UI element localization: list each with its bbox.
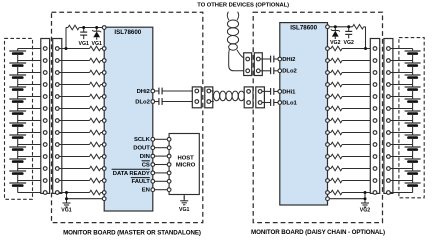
svg-text:DOUT: DOUT bbox=[133, 146, 150, 152]
svg-text:VG1: VG1 bbox=[92, 41, 102, 47]
svg-text:DHi2: DHi2 bbox=[282, 57, 296, 63]
svg-text:MICRO: MICRO bbox=[176, 163, 196, 169]
svg-text:DLo1: DLo1 bbox=[282, 100, 297, 106]
svg-text:MONITOR BOARD (DAISY CHAIN - O: MONITOR BOARD (DAISY CHAIN - OPTIONAL) bbox=[251, 229, 385, 236]
svg-text:EN: EN bbox=[142, 188, 150, 194]
svg-text:VG1: VG1 bbox=[61, 207, 71, 213]
svg-text:TO OTHER DEVICES (OPTIONAL): TO OTHER DEVICES (OPTIONAL) bbox=[197, 2, 289, 8]
svg-text:VG2: VG2 bbox=[344, 40, 354, 46]
svg-text:FAULT: FAULT bbox=[132, 179, 151, 185]
svg-text:VG1: VG1 bbox=[179, 207, 189, 213]
svg-text:DLo2: DLo2 bbox=[135, 99, 150, 105]
svg-text:ISL78600: ISL78600 bbox=[290, 25, 317, 32]
svg-text:CS: CS bbox=[142, 162, 150, 168]
svg-text:DHi1: DHi1 bbox=[282, 89, 296, 95]
svg-text:MONITOR BOARD (MASTER OR STAND: MONITOR BOARD (MASTER OR STANDALONE) bbox=[63, 230, 201, 237]
svg-text:DATA READY: DATA READY bbox=[113, 171, 150, 177]
svg-text:DIN: DIN bbox=[140, 154, 150, 160]
svg-text:HOST: HOST bbox=[178, 155, 195, 161]
svg-text:VG2: VG2 bbox=[360, 207, 370, 213]
svg-text:SCLK: SCLK bbox=[134, 137, 151, 143]
svg-text:DLo2: DLo2 bbox=[282, 69, 297, 75]
svg-text:VG1: VG1 bbox=[79, 41, 89, 47]
svg-text:VG2: VG2 bbox=[330, 40, 340, 46]
svg-text:DHi2: DHi2 bbox=[137, 89, 151, 95]
svg-text:ISL78600: ISL78600 bbox=[114, 29, 141, 36]
